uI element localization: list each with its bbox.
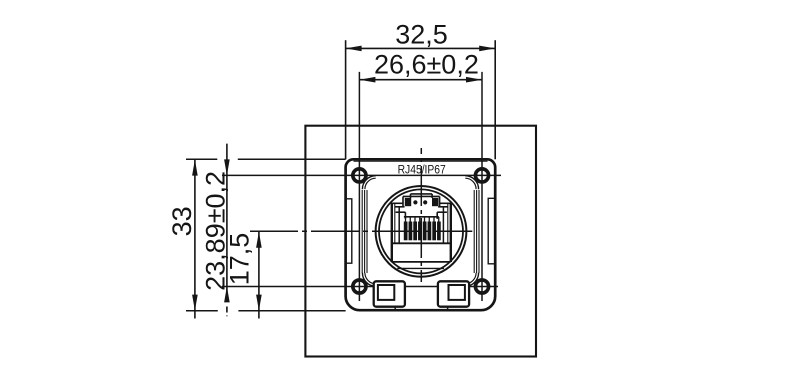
dim 26,6 extension/hole centerline left vertical (358, 72, 360, 301)
plate fillet BL (362, 273, 376, 287)
contact dots (413, 200, 417, 204)
comb teeth (406, 217, 439, 222)
plate fillet TL (362, 176, 376, 190)
svg-text:17,5: 17,5 (225, 233, 255, 286)
latch window top (403, 195, 440, 197)
latch square left outer (374, 281, 405, 306)
svg-text:RJ45/IP67: RJ45/IP67 (398, 162, 446, 176)
dim 32,5 extension right (494, 40, 496, 159)
second step (396, 211, 406, 213)
RJ45 jack (392, 194, 451, 269)
hole centerline top horizontal (222, 174, 501, 176)
dim 17,5 text (225, 233, 255, 286)
right rail (450, 203, 452, 263)
latch square right outer (438, 281, 469, 306)
latch square right inner (449, 285, 465, 300)
svg-text:32,5: 32,5 (395, 20, 448, 50)
dim 32,5 line (346, 47, 496, 49)
cavity walls (398, 207, 400, 243)
ext line flange top (186, 158, 217, 160)
big circle inner (379, 189, 463, 273)
dim 32,5 extension left (345, 40, 347, 159)
big circle outer (376, 186, 467, 277)
plate fillet TR (465, 176, 479, 190)
flange top inner band line (354, 160, 488, 162)
dim 17,5 line (258, 232, 260, 319)
step verticals (402, 196, 404, 206)
bottom tray (392, 261, 451, 263)
centerline horizontal (250, 230, 472, 232)
tray top line (392, 242, 451, 244)
svg-text:33: 33 (167, 206, 197, 236)
hole centerline bottom horizontal (222, 286, 498, 288)
panel (305, 126, 536, 357)
dim 26,6 line (359, 79, 482, 81)
module face verticals right (473, 190, 475, 273)
dim 26,6 extension/hole centerline right vertical (481, 72, 483, 301)
left rail (391, 203, 393, 263)
centerline vertical (420, 148, 422, 282)
flange outline (346, 159, 496, 310)
flange right side inner bracket (488, 198, 495, 263)
comb shelf (404, 216, 439, 218)
dim 33 line (194, 160, 196, 319)
module face verticals left (361, 190, 363, 273)
svg-text:26,6±0,2: 26,6±0,2 (374, 49, 479, 79)
mounting hole ring TR (475, 169, 488, 182)
latch square left inner (378, 285, 394, 300)
dim 23,89 line (226, 144, 228, 302)
mounting hole ring BR (475, 280, 488, 293)
dim 33 text (167, 206, 197, 236)
flange left side inner bracket (346, 199, 352, 263)
dim 23,89 text (200, 171, 230, 291)
latch corner blocks (405, 198, 411, 206)
latch stubs (394, 307, 396, 311)
top shoulders (392, 202, 403, 204)
plate fillet BR (465, 273, 479, 287)
pocket bottom line (397, 267, 444, 269)
mounting hole ring TL (353, 169, 366, 182)
mounting hole ring BL (353, 280, 366, 293)
ext line flange bottom (186, 310, 218, 312)
pins (404, 222, 441, 241)
